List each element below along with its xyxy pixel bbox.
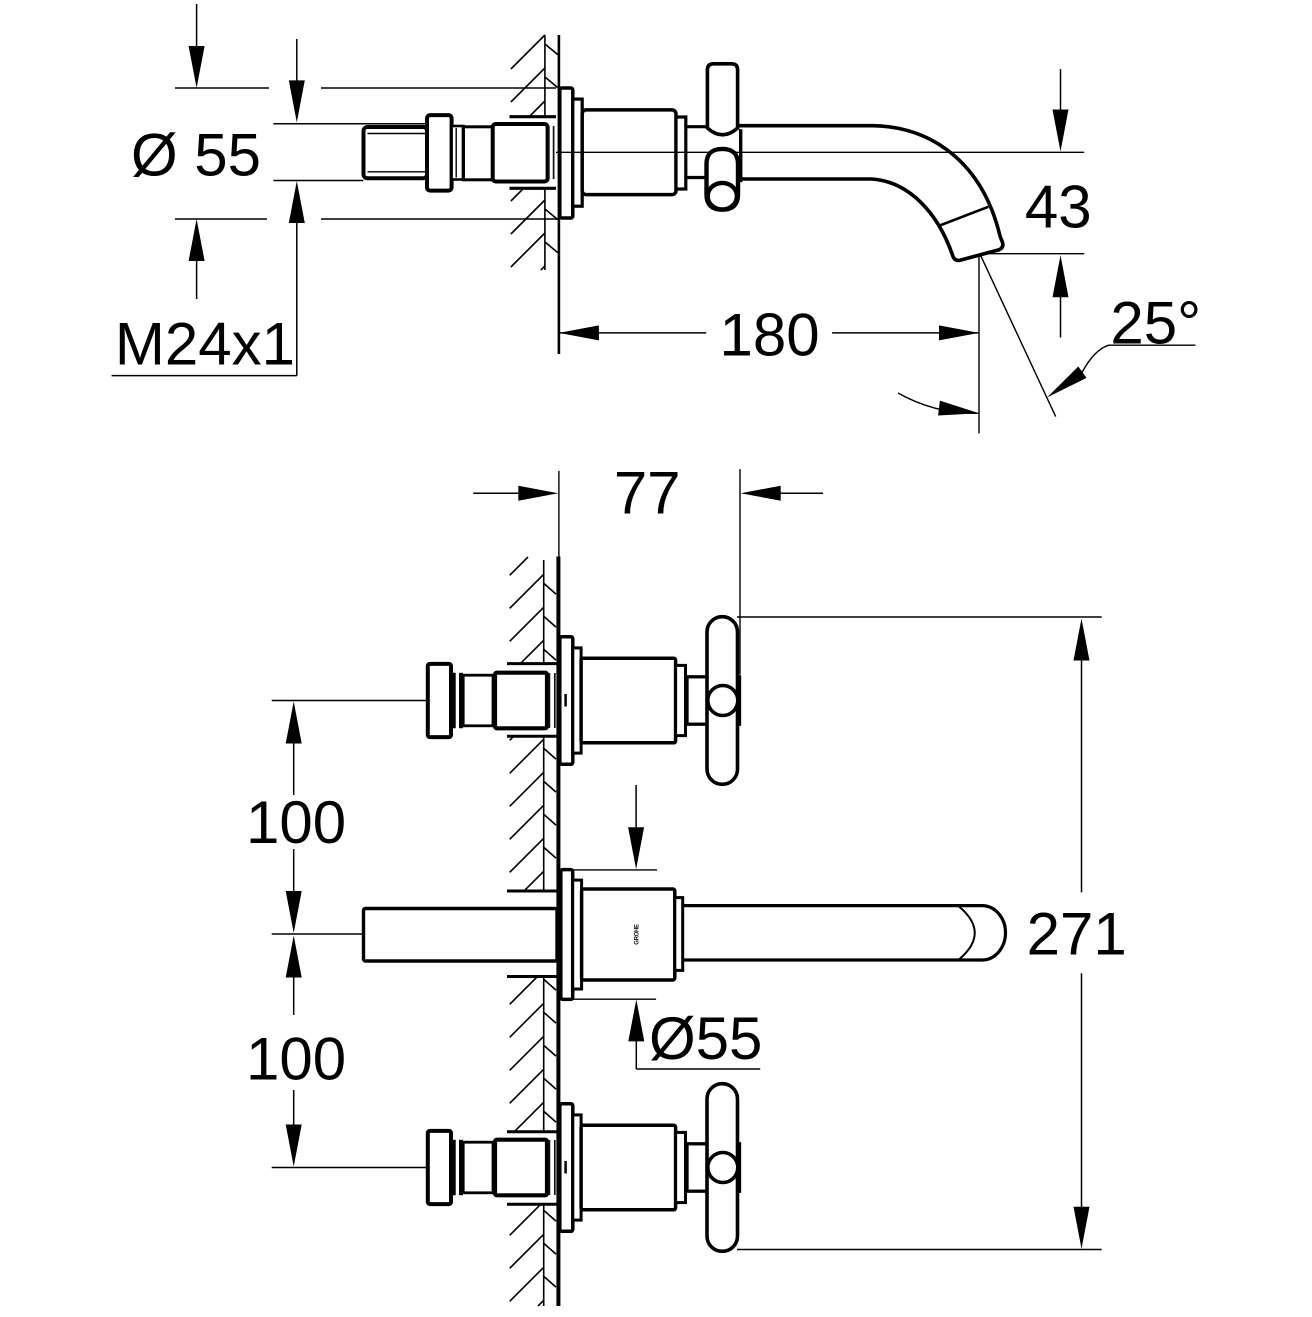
top handle valve cylinder small — [463, 675, 493, 726]
dim 271 top extension line — [737, 616, 1102, 618]
dim 77 arrow right part — [741, 486, 781, 501]
svg-text:100: 100 — [246, 1026, 346, 1093]
dim 180 line — [559, 332, 979, 334]
top handle escutcheon dash — [564, 694, 567, 707]
dim Ø55 extension line bottom (y=219) — [175, 218, 560, 220]
spout aerator line — [940, 207, 989, 226]
top handle concealed valve end cap — [428, 664, 451, 737]
svg-text:GROHE: GROHE — [635, 924, 641, 945]
spout supply pipe — [364, 909, 558, 962]
dim M24 arrow up / leader at x=296.8 — [289, 181, 305, 376]
top handle cross hub — [687, 677, 740, 724]
bottom handle escutcheon inner plate — [573, 1115, 581, 1220]
bottom handle valve cylinder small — [463, 1142, 493, 1193]
spout tube (top view) — [738, 126, 1003, 261]
dim Ø55 arrow up at x=196.6 — [189, 219, 205, 299]
spout escutcheon inner plate — [573, 880, 582, 989]
top handle escutcheon inner plate — [573, 648, 581, 753]
svg-text:100: 100 — [246, 789, 346, 856]
dim M24 extension line bottom (y=180.5) — [273, 180, 363, 182]
top handle sealing lines — [549, 673, 554, 728]
spout body step — [675, 898, 683, 971]
bottom handle body step — [676, 1132, 686, 1202]
angle arc arrowhead — [938, 401, 979, 416]
cross handle upper arm (top view) — [707, 64, 737, 135]
wall hole bottom edge (top view) — [510, 187, 557, 190]
svg-text:271: 271 — [1027, 901, 1127, 968]
wall hatch pattern (top view) — [511, 35, 558, 270]
top handle escutcheon — [560, 637, 573, 765]
handle stem lines (top view) — [686, 127, 708, 178]
bottom handle valve groove rings — [454, 1140, 461, 1195]
dim 43 bottom reference line — [983, 253, 1084, 255]
spout angle slanted line — [981, 255, 1056, 416]
dim 180 arrow right — [939, 325, 979, 340]
escutcheon plate (top view) — [560, 88, 573, 218]
svg-text:Ø55: Ø55 — [649, 1005, 762, 1072]
wall face line (top view, also 180-dim extension) — [558, 35, 561, 354]
top handle valve cylinder large — [495, 673, 547, 729]
top handle hub circle — [708, 686, 738, 716]
spout angle vertical reference — [978, 255, 980, 433]
bottom handle sealing lines — [549, 1140, 554, 1195]
dim 43 arrow down — [1053, 69, 1069, 151]
dim Ø55(2) bottom extension — [561, 998, 656, 1000]
connector ring — [452, 126, 464, 180]
bottom handle hub circle — [708, 1153, 738, 1183]
spout escutcheon — [561, 870, 573, 1000]
top handle body step — [676, 665, 686, 735]
spout centerline / 43-dim top reference — [556, 151, 1084, 153]
M24x1 leader underline — [112, 375, 297, 377]
label 25deg leader — [1082, 345, 1196, 372]
dim 77 arrow left part — [518, 486, 558, 501]
svg-text:77: 77 — [614, 460, 681, 527]
bottom handle escutcheon dash — [564, 1161, 567, 1174]
bottom handle escutcheon — [560, 1104, 573, 1232]
wall hole edges #3 (bottom view) — [507, 1132, 557, 1205]
sealing lines at wall entry — [549, 126, 554, 179]
spout body — [582, 889, 675, 980]
valve segment B — [493, 124, 548, 182]
bottom handle handle body — [581, 1125, 676, 1210]
cross handle lower arm (top view) — [707, 149, 739, 210]
wall hatch boundary line (bottom view) — [543, 560, 545, 1306]
dim 43 arrow up — [1053, 255, 1069, 337]
bottom handle center reference line — [272, 1167, 428, 1169]
svg-text:180: 180 — [720, 302, 820, 369]
spout tube mouth arc — [959, 907, 975, 960]
dim 180 arrow left — [559, 325, 599, 340]
escutcheon inner plate (top view) — [573, 99, 582, 206]
bottom handle cross handle bar — [707, 1084, 738, 1252]
supply nipple thread body — [364, 127, 428, 178]
dim 77 left extension line — [558, 471, 560, 557]
dim 271 line + arrows — [1074, 619, 1090, 1249]
top handle valve groove rings — [454, 673, 461, 728]
dim Ø55(2) top extension — [561, 869, 657, 871]
label 25deg leader arrowhead — [1047, 367, 1087, 398]
dim 100 lower arrow down — [286, 1090, 302, 1167]
dim Ø55(2) arrow down — [628, 785, 644, 869]
dim 77 right extension line — [739, 469, 741, 674]
connector flange — [427, 115, 452, 191]
svg-text:25°: 25° — [1110, 290, 1201, 357]
wall hole edges #2 (bottom view) — [507, 891, 557, 977]
spout center reference line — [272, 933, 364, 935]
wall hatch pattern (bottom view) — [510, 557, 556, 1306]
dim M24 arrow down at x=296.8 — [289, 39, 305, 122]
cross handle hub edge (top view) — [739, 129, 742, 182]
dim M24 extension line top (y=123.8) — [273, 123, 427, 125]
bottom handle valve cylinder large — [495, 1140, 547, 1196]
svg-text:Ø 55: Ø 55 — [131, 122, 261, 189]
dim 271 bottom extension line — [737, 1249, 1102, 1251]
wall face line (bottom view) — [556, 557, 560, 1307]
dim Ø55 arrow down at x=196.6 — [189, 4, 205, 88]
wall hole top edge (top view) — [510, 115, 557, 118]
wall hole edges #1 (bottom view) — [507, 664, 557, 737]
top handle handle body — [581, 658, 676, 743]
body step (top view) — [676, 117, 686, 189]
top handle center reference line — [272, 700, 428, 702]
bottom handle concealed valve end cap — [428, 1131, 451, 1204]
dim Ø55(2) arrow up + leader — [628, 999, 760, 1069]
angle arc — [898, 393, 979, 413]
dim 100 upper arrow down — [286, 849, 302, 933]
top handle cross handle bar — [707, 617, 738, 785]
svg-text:M24x1: M24x1 — [115, 311, 295, 378]
faucet body (top view) — [582, 110, 676, 195]
wall hatch boundary line (top view) — [544, 35, 546, 270]
valve segment A — [464, 127, 493, 180]
dim 100 lower arrow up — [286, 936, 302, 1016]
dim 100 upper arrow up — [286, 702, 302, 796]
dim Ø55 extension line top (y=88) — [175, 87, 556, 89]
svg-text:43: 43 — [1025, 174, 1092, 241]
bottom handle cross hub — [687, 1144, 740, 1191]
spout tube (bottom view) — [683, 906, 1006, 960]
